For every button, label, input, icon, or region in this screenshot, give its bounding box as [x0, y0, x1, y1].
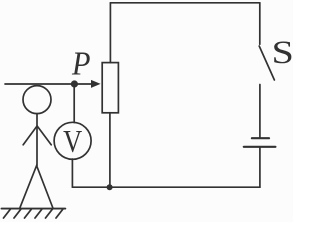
svg-text:S: S	[272, 33, 294, 70]
svg-text:P: P	[71, 46, 90, 83]
svg-text:V: V	[63, 123, 82, 159]
